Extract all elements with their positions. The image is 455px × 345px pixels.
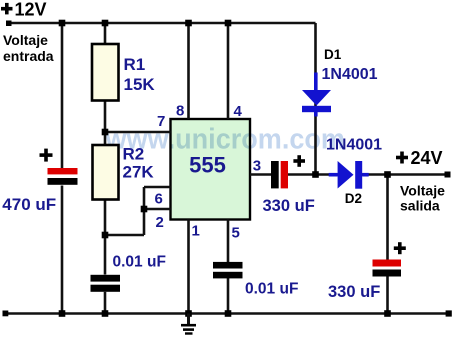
svg-text:salida: salida: [400, 197, 440, 213]
node junction bottom rail left: [59, 310, 66, 317]
svg-text:D2: D2: [345, 191, 362, 206]
node junction bottom rail pin 1: [185, 310, 192, 317]
wire C3 to D2 horizontal: [288, 173, 340, 176]
op-amp U1 555 timer body: [171, 119, 251, 220]
node junction top rail left vertical: [59, 20, 66, 27]
wire R2 bottom lead: [104, 199, 107, 275]
wire pin6-pin2 vertical link: [143, 187, 146, 235]
label Voltaje entrada: [3, 32, 54, 64]
svg-text:2: 2: [156, 214, 164, 231]
svg-text:555: 555: [189, 153, 226, 178]
svg-text:8: 8: [176, 103, 184, 120]
node junction pin 2 link: [141, 206, 148, 213]
terminal output - bottom right: [446, 310, 452, 316]
wire pin 1 vertical: [187, 220, 190, 314]
node junction bottom rail pin 5: [225, 310, 232, 317]
wire left input rail upper: [61, 23, 64, 168]
node junction top rail R1: [102, 20, 109, 27]
svg-text:Voltaje: Voltaje: [3, 32, 48, 48]
svg-text:D1: D1: [324, 47, 342, 62]
svg-text:1: 1: [192, 223, 200, 240]
svg-text:15K: 15K: [124, 75, 156, 94]
svg-text:7: 7: [157, 113, 165, 130]
svg-text:3: 3: [253, 158, 261, 175]
node junction R2 bottom: [102, 232, 109, 239]
node junction output cap top: [384, 171, 391, 178]
capacitor C5 330uF electrolytic output: [373, 260, 402, 277]
wire R1 top lead: [104, 23, 107, 44]
svg-text:24V: 24V: [411, 148, 443, 168]
svg-text:470 uF: 470 uF: [2, 195, 56, 214]
wire pin 4 vertical: [227, 23, 230, 119]
plus sign of C4: [40, 149, 53, 162]
svg-text:entrada: entrada: [3, 48, 54, 64]
svg-text:330 uF: 330 uF: [328, 283, 380, 301]
resistor R2: [93, 145, 155, 200]
wire pin 3 output: [250, 173, 272, 176]
wire left input rail lower: [61, 186, 64, 314]
capacitor C2 0.01uF pin5: [213, 262, 243, 279]
node junction bottom rail C1: [102, 310, 109, 317]
terminal input + top left: [6, 21, 12, 27]
plus sign of +12V: [1, 3, 13, 15]
node junction top rail pin 8: [185, 20, 192, 27]
svg-text:1N4001: 1N4001: [326, 136, 382, 153]
wire pin 8 vertical: [187, 23, 190, 119]
svg-text:6: 6: [155, 191, 163, 208]
capacitor C1 0.01uF timing: [91, 275, 121, 292]
svg-text:12V: 12V: [15, 0, 47, 20]
wire D2 to output terminal: [359, 173, 448, 176]
capacitor C4 470uF electrolytic input: [48, 168, 78, 185]
terminal output + right: [445, 172, 451, 178]
svg-text:27K: 27K: [123, 163, 155, 182]
capacitor C3 330uF electrolytic pin3: [271, 161, 288, 188]
node junction pin 7 R1-R2: [102, 129, 109, 136]
svg-text:330 uF: 330 uF: [263, 197, 315, 215]
wire pin 7 horizontal: [105, 131, 171, 134]
wire output cap lower lead: [386, 277, 389, 314]
plus sign of C5: [394, 242, 406, 254]
wire top +12V rail: [8, 22, 316, 25]
diode D1 1N4001: [302, 73, 331, 117]
svg-text:R2: R2: [123, 145, 145, 164]
wire pin 6 horizontal: [144, 186, 171, 189]
wire C1 bottom lead: [104, 292, 107, 314]
node junction top rail pin 4: [225, 20, 232, 27]
wire pin2 to R2 node horizontal: [105, 234, 144, 237]
svg-text:0.01 uF: 0.01 uF: [245, 281, 298, 298]
svg-text:1N4001: 1N4001: [322, 66, 378, 83]
wire output cap upper lead: [386, 175, 389, 261]
resistor R1: [92, 44, 155, 101]
ground symbol: [181, 314, 196, 334]
svg-text:4: 4: [234, 103, 243, 120]
wire pin 5 lower lead: [227, 278, 230, 314]
svg-text:R1: R1: [124, 55, 146, 74]
svg-text:Voltaje: Voltaje: [400, 182, 445, 198]
wire R1-R2 middle lead: [104, 100, 107, 145]
wire pin 2 horizontal: [144, 208, 171, 211]
plus sign of C3: [293, 155, 305, 167]
wire bottom ground rail: [3, 312, 448, 315]
label Voltaje salida: [400, 182, 445, 213]
svg-text:0.01 uF: 0.01 uF: [113, 254, 166, 271]
diode D2 1N4001: [329, 161, 369, 189]
terminal input - bottom left: [3, 311, 9, 317]
wire pin 5 upper lead: [227, 220, 230, 263]
plus sign of +24V: [396, 152, 408, 164]
wire D1 branch vertical: [314, 23, 317, 174]
svg-text:5: 5: [232, 225, 240, 242]
node junction D1 output: [312, 171, 319, 178]
node junction bottom rail output cap: [384, 310, 391, 317]
